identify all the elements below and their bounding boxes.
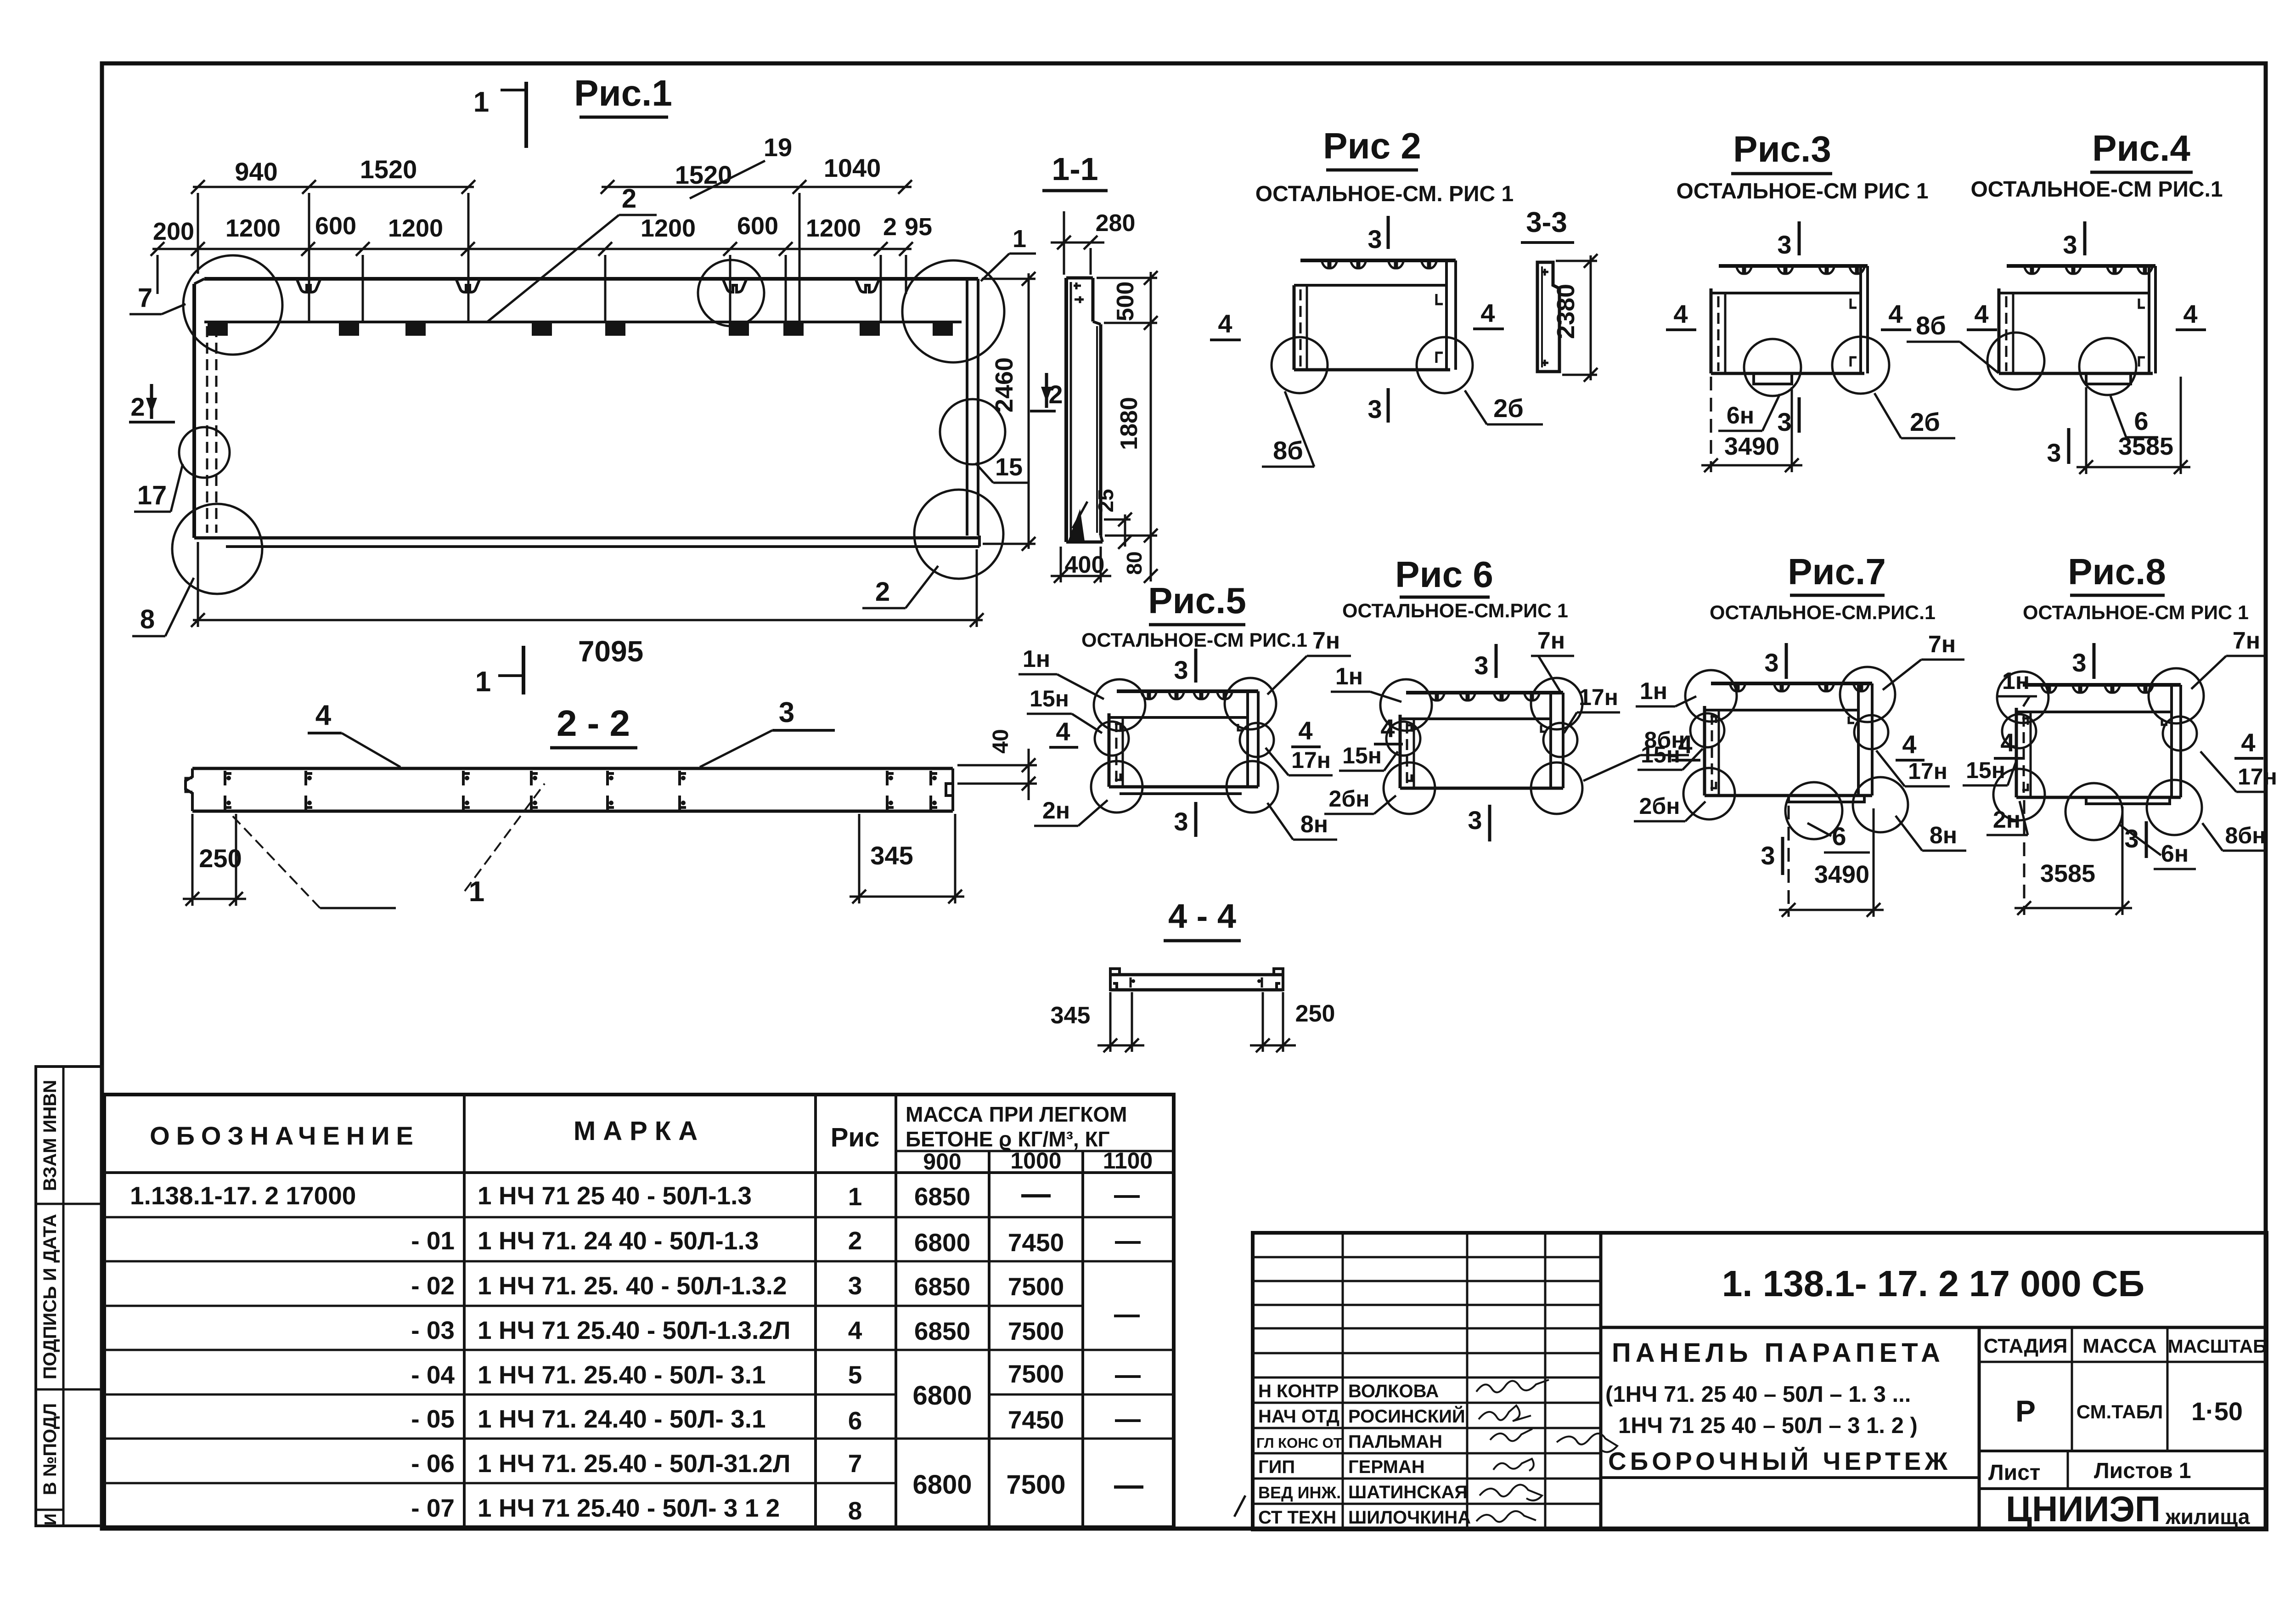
svg-text:280: 280	[1096, 210, 1136, 237]
fig4 detail circle right	[2079, 338, 2136, 395]
svg-text:600: 600	[737, 212, 778, 240]
svg-text:БЕТОНЕ ϱ КГ/М³, КГ: БЕТОНЕ ϱ КГ/М³, КГ	[906, 1127, 1110, 1151]
fig8 section mark 3 bottom	[2124, 821, 2146, 858]
svg-text:3: 3	[1367, 395, 1382, 423]
section 1-1 dim 80	[1122, 541, 1158, 583]
fig5 title	[1148, 580, 1246, 625]
fig3 mark 4 left	[1666, 299, 1696, 330]
svg-text:8: 8	[848, 1496, 862, 1525]
section 4-4 dim 345	[1051, 992, 1144, 1052]
svg-text:1200: 1200	[225, 214, 281, 242]
svg-text:Рис: Рис	[831, 1123, 880, 1152]
svg-text:940: 940	[235, 157, 277, 186]
svg-text:7500: 7500	[1008, 1360, 1064, 1388]
svg-text:СТ ТЕХН: СТ ТЕХН	[1258, 1507, 1336, 1528]
svg-text:1: 1	[475, 666, 491, 698]
title block stage/mass/scale columns	[1979, 1327, 2267, 1451]
svg-text:Рис.8: Рис.8	[2068, 551, 2166, 592]
svg-text:6800: 6800	[912, 1470, 972, 1500]
fig2 section mark 3 top	[1367, 216, 1388, 254]
fig3 detail circle bottom-left	[1744, 339, 1801, 396]
title block outer	[1253, 1233, 2267, 1530]
svg-text:1: 1	[848, 1182, 862, 1211]
section 3-3 profile	[1537, 262, 1559, 372]
table column lines	[464, 1095, 1083, 1527]
svg-text:3490: 3490	[1814, 861, 1869, 888]
fig4 title	[2090, 128, 2193, 172]
svg-text:95: 95	[905, 213, 932, 241]
fig7 section mark 3 top	[1764, 643, 1786, 679]
fig3 mark 4 right	[1881, 299, 1911, 330]
section 4-4 title	[1164, 897, 1241, 941]
svg-text:6800: 6800	[912, 1381, 972, 1411]
svg-text:ШАТИНСКАЯ: ШАТИНСКАЯ	[1348, 1482, 1468, 1502]
fig6 label 2бн	[1324, 786, 1396, 814]
fig4 label 6	[2110, 396, 2158, 437]
svg-text:17н: 17н	[1291, 747, 1331, 773]
fig7 label 7н	[1883, 631, 1964, 690]
fig3 panel	[1711, 266, 1868, 384]
fig5 section mark 3 bottom	[1174, 802, 1196, 837]
svg-text:2: 2	[622, 184, 636, 214]
svg-text:7450: 7450	[1008, 1228, 1064, 1257]
title block signatures (squiggles)	[1476, 1380, 1617, 1522]
svg-text:4: 4	[1218, 309, 1232, 338]
section 1-1 dim 280	[1051, 210, 1135, 275]
svg-text:6850: 6850	[914, 1272, 970, 1301]
svg-text:1 НЧ 71. 24 40 - 50Л-1.3: 1 НЧ 71. 24 40 - 50Л-1.3	[478, 1226, 759, 1255]
svg-text:3: 3	[779, 697, 794, 728]
fig7 dim 3490	[1779, 806, 1884, 917]
fig3 section mark 3 bottom	[1777, 397, 1799, 436]
svg-text:4: 4	[2241, 728, 2255, 757]
svg-text:1 НЧ 71. 25.40 - 50Л- 3.1: 1 НЧ 71. 25.40 - 50Л- 3.1	[478, 1360, 766, 1389]
svg-text:1: 1	[1013, 225, 1026, 253]
title block signature labels	[1256, 1381, 1471, 1528]
fig5 label 2н	[1034, 797, 1108, 826]
fig8 label 8бн	[2202, 823, 2266, 851]
fig7 teeth	[1730, 683, 1869, 691]
svg-text:Лист: Лист	[1988, 1461, 2040, 1485]
fig2 label 2б	[1465, 390, 1543, 424]
svg-text:3: 3	[1174, 807, 1188, 836]
section 2-2 title	[550, 703, 637, 748]
svg-text:2: 2	[1048, 380, 1063, 409]
fig6 teeth	[1429, 693, 1540, 700]
svg-text:Рис.4: Рис.4	[2092, 128, 2190, 169]
fig7 label 1н	[1636, 678, 1696, 706]
svg-text:1 НЧ 71 25 40 - 50Л-1.3: 1 НЧ 71 25 40 - 50Л-1.3	[478, 1181, 752, 1210]
fig6 section mark 3 top	[1474, 644, 1496, 680]
title block signature grid horizontals	[1253, 1257, 1601, 1504]
svg-text:СТАДИЯ: СТАДИЯ	[1984, 1335, 2068, 1357]
svg-text:МАРКА: МАРКА	[574, 1116, 705, 1146]
svg-text:8б: 8б	[1916, 311, 1946, 340]
svg-text:ШИЛОЧКИНА: ШИЛОЧКИНА	[1348, 1507, 1471, 1528]
svg-text:4: 4	[1974, 299, 1988, 328]
svg-text:7500: 7500	[1008, 1317, 1064, 1345]
svg-text:Н КОНТР: Н КОНТР	[1258, 1381, 1339, 1401]
svg-text:200: 200	[153, 218, 194, 245]
fig8 label 7н	[2191, 627, 2266, 689]
svg-text:4: 4	[2183, 299, 2197, 328]
svg-text:3: 3	[2124, 824, 2138, 853]
fig8 panel	[2016, 685, 2181, 804]
fig3 label 6н	[1718, 394, 1780, 431]
svg-text:жилища: жилища	[2165, 1505, 2250, 1529]
svg-text:Рис.1: Рис.1	[574, 73, 672, 113]
fig4 detail circle left	[1987, 333, 2044, 389]
svg-text:7н: 7н	[1928, 631, 1956, 658]
fig5 label 1н	[1019, 646, 1104, 699]
section 3-3 dim 2380	[1552, 254, 1598, 382]
fig1 detail circle 8	[172, 504, 262, 594]
fig6 label 7н	[1531, 627, 1574, 692]
fig1 section mark 1 (bottom)	[475, 646, 523, 698]
svg-text:4: 4	[1888, 299, 1902, 328]
fig3 teeth	[1736, 266, 1865, 274]
fig7 label 6	[1807, 822, 1870, 852]
fig7 detail circles	[1685, 670, 1737, 722]
svg-text:17: 17	[137, 480, 167, 510]
fig3 detail circle bottom-right	[1832, 337, 1889, 394]
svg-text:1040: 1040	[824, 153, 881, 182]
svg-text:500: 500	[1112, 282, 1139, 322]
fig7 label 2бн	[1634, 793, 1705, 821]
fig2 detail circle right	[1417, 337, 1473, 393]
fig2 section mark 3 bottom	[1367, 388, 1388, 423]
section 2-2 anchors	[225, 771, 937, 810]
svg-text:6850: 6850	[914, 1182, 970, 1211]
svg-text:1: 1	[469, 876, 484, 908]
fig1 label 8	[132, 578, 194, 636]
fig5 panel	[1109, 691, 1258, 794]
fig7 mark 4 right + 17н	[1896, 730, 1925, 760]
fig1 section mark 2 (left)	[129, 384, 175, 422]
svg-text:НАЧ ОТД: НАЧ ОТД	[1258, 1406, 1339, 1427]
fig1 detail circle bottom-right	[914, 490, 1003, 579]
fig2 title	[1323, 125, 1421, 170]
svg-text:4 - 4: 4 - 4	[1168, 897, 1236, 935]
svg-text:2н: 2н	[1042, 797, 1070, 824]
svg-text:1000: 1000	[1010, 1148, 1061, 1174]
svg-text:- 06: - 06	[411, 1449, 455, 1478]
svg-text:Рис 2: Рис 2	[1323, 125, 1421, 166]
svg-text:17н: 17н	[1579, 684, 1618, 710]
svg-text:3: 3	[1761, 841, 1775, 870]
svg-text:4: 4	[1298, 716, 1312, 745]
svg-text:ОСТАЛЬНОЕ-СМ.РИС 1: ОСТАЛЬНОЕ-СМ.РИС 1	[1342, 600, 1568, 622]
fig7 section mark 3 bottom	[1761, 837, 1783, 875]
fig1 anchor squares	[208, 323, 953, 336]
fig1 section mark 1 (top)	[473, 82, 526, 148]
svg-text:15н: 15н	[1966, 757, 2005, 783]
svg-text:3: 3	[1468, 806, 1482, 835]
svg-text:8б: 8б	[1273, 436, 1303, 465]
svg-text:3-3: 3-3	[1526, 207, 1567, 238]
svg-text:3: 3	[1764, 648, 1778, 677]
fig2 teeth	[1322, 260, 1437, 268]
section 1-1 dim 400	[1051, 547, 1111, 583]
svg-text:7: 7	[138, 283, 152, 313]
svg-text:3: 3	[1174, 655, 1188, 684]
section 2-2 bar	[186, 768, 953, 811]
svg-text:4: 4	[1480, 299, 1495, 327]
fig6 label 1н	[1331, 663, 1401, 702]
title block signature grid verticals	[1343, 1233, 1545, 1530]
svg-text:2 - 2: 2 - 2	[557, 703, 630, 744]
fig2 mark 4 left	[1210, 309, 1241, 340]
fig8 section mark 3 top	[2072, 643, 2094, 679]
svg-text:600: 600	[315, 212, 356, 240]
fig1 lifting loops	[297, 279, 879, 292]
svg-text:ОСТАЛЬНОЕ-СМ РИС.1: ОСТАЛЬНОЕ-СМ РИС.1	[1081, 629, 1307, 651]
svg-text:7н: 7н	[1312, 627, 1340, 654]
fig8 label 2н	[1986, 801, 2028, 835]
fig3 label 2б	[1874, 393, 1955, 438]
svg-text:3: 3	[2047, 438, 2061, 467]
fig8 title	[2068, 551, 2166, 595]
svg-text:ГЕРМАН: ГЕРМАН	[1348, 1457, 1425, 1477]
section 1-1 dim 2460	[982, 272, 1035, 551]
svg-text:6н: 6н	[2161, 841, 2189, 867]
svg-text:1 НЧ 71. 25.40 - 50Л-31.2Л: 1 НЧ 71. 25.40 - 50Л-31.2Л	[478, 1449, 790, 1478]
svg-text:ВЗАМ ИНВN: ВЗАМ ИНВN	[40, 1080, 60, 1191]
table row lines	[104, 1217, 1174, 1483]
fig2 mark 4 right	[1473, 299, 1504, 329]
svg-text:4: 4	[1678, 730, 1692, 759]
svg-text:3: 3	[1367, 225, 1382, 254]
fig5 mark 4 right + 17н	[1291, 716, 1321, 747]
svg-text:4: 4	[1056, 717, 1070, 746]
svg-text:В №ПОДЛ: В №ПОДЛ	[40, 1403, 60, 1496]
fig8 mark 4 left + 15н	[1994, 728, 2023, 758]
svg-text:ПАНЕЛЬ ПАРАПЕТА: ПАНЕЛЬ ПАРАПЕТА	[1612, 1338, 1945, 1368]
svg-text:3: 3	[1777, 407, 1791, 436]
svg-text:1: 1	[473, 86, 489, 118]
svg-text:2380: 2380	[1552, 284, 1580, 339]
svg-text:И: И	[41, 1513, 60, 1525]
svg-text:1100: 1100	[1103, 1148, 1153, 1174]
svg-text:РОСИНСКИЙ: РОСИНСКИЙ	[1348, 1405, 1465, 1427]
svg-text:- 05: - 05	[411, 1405, 455, 1433]
fig5 section mark 3 top	[1174, 649, 1196, 684]
svg-text:8бн: 8бн	[2225, 823, 2266, 848]
fig3 title	[1731, 129, 1832, 174]
svg-text:3: 3	[1474, 651, 1488, 680]
svg-text:7095: 7095	[578, 635, 643, 668]
fig1 section mark 2 (right)	[1030, 373, 1063, 411]
svg-text:1200: 1200	[388, 214, 443, 242]
svg-text:3: 3	[2072, 648, 2086, 677]
svg-text:4: 4	[1902, 730, 1916, 759]
svg-text:1200: 1200	[641, 214, 696, 242]
svg-text:8н: 8н	[1300, 811, 1328, 838]
fig6 label 17н right	[1564, 684, 1620, 733]
fig4 section mark 3 top	[2063, 221, 2085, 259]
svg-text:1н: 1н	[1023, 646, 1050, 672]
svg-text:2бн: 2бн	[1639, 793, 1680, 819]
svg-text:ГИП: ГИП	[1258, 1457, 1295, 1477]
svg-text:2б: 2б	[1910, 407, 1940, 436]
svg-text:ПАЛЬМАН: ПАЛЬМАН	[1348, 1432, 1442, 1452]
svg-text:- 07: - 07	[411, 1494, 455, 1522]
fig4 panel	[1999, 266, 2155, 384]
svg-text:7450: 7450	[1008, 1405, 1064, 1434]
svg-text:2н: 2н	[1993, 807, 2020, 833]
section 2-2 dim 250	[183, 814, 246, 906]
svg-text:1 НЧ 71. 24.40 - 50Л- 3.1: 1 НЧ 71. 24.40 - 50Л- 3.1	[478, 1405, 766, 1433]
table header lines	[104, 1171, 1174, 1174]
fig8 label 1н	[1998, 668, 2037, 706]
fig1 detail circle mid-right	[940, 399, 1005, 464]
svg-text:1·50: 1·50	[2191, 1397, 2243, 1426]
fig4 section mark 3 bottom	[2047, 428, 2069, 467]
fig1 label 2 (top) with leader	[488, 184, 657, 322]
fig5 teeth	[1141, 691, 1232, 699]
svg-text:80: 80	[1122, 551, 1146, 575]
svg-text:2460: 2460	[990, 357, 1018, 412]
svg-text:2бн: 2бн	[1329, 786, 1370, 812]
section 1-1 profile	[1066, 278, 1103, 542]
svg-text:- 04: - 04	[411, 1360, 455, 1389]
svg-text:4: 4	[1673, 299, 1688, 328]
svg-text:- 02: - 02	[411, 1271, 455, 1300]
svg-text:19: 19	[764, 133, 792, 162]
svg-text:ЦНИИЭП: ЦНИИЭП	[2006, 1489, 2161, 1529]
svg-text:- 01: - 01	[411, 1226, 455, 1255]
fig6 title	[1395, 554, 1493, 597]
fig5 label 7н	[1267, 627, 1351, 694]
fig1 label 17	[134, 464, 183, 512]
fig1 detail circle top-right	[902, 260, 1004, 362]
svg-text:6: 6	[1832, 822, 1846, 851]
svg-text:3: 3	[1777, 230, 1791, 259]
svg-text:ОСТАЛЬНОЕ-СМ. РИС 1: ОСТАЛЬНОЕ-СМ. РИС 1	[1255, 182, 1514, 206]
svg-text:7: 7	[848, 1449, 862, 1478]
svg-text:4: 4	[2000, 728, 2015, 757]
svg-text:(1НЧ 71. 25 40 – 50Л – 1. 3 ..: (1НЧ 71. 25 40 – 50Л – 1. 3 ...	[1605, 1382, 1911, 1407]
fig5 label 15н	[1027, 686, 1102, 733]
fig2 detail circle left	[1272, 337, 1328, 393]
svg-text:Рис.3: Рис.3	[1733, 129, 1831, 169]
svg-text:1-1: 1-1	[1052, 151, 1098, 187]
svg-text:40: 40	[989, 729, 1013, 753]
fig1 panel outline	[194, 279, 979, 547]
fig1 detail circle 7	[183, 255, 282, 355]
section 4-4 profile	[1110, 969, 1283, 990]
svg-text:ПОДПИСЬ И ДАТА: ПОДПИСЬ И ДАТА	[40, 1214, 60, 1379]
fig2 label 8б	[1262, 391, 1314, 467]
svg-text:400: 400	[1065, 552, 1105, 578]
svg-text:345: 345	[1051, 1002, 1091, 1029]
fig1 dimension row 200/1200/600/1200/1200/600/1200/295	[151, 242, 913, 322]
svg-text:Рис.5: Рис.5	[1148, 580, 1246, 621]
fig4 mark 4 right	[2176, 299, 2206, 330]
svg-text:1200: 1200	[806, 214, 861, 242]
fig1 title Рис.1	[574, 73, 672, 117]
fig4 label 8б	[1907, 311, 1998, 373]
fig7 title	[1788, 551, 1886, 595]
svg-text:3490: 3490	[1724, 433, 1779, 460]
section 2-2 dim 345	[850, 814, 964, 903]
svg-text:4: 4	[1380, 714, 1395, 743]
svg-text:ВОЛКОВА: ВОЛКОВА	[1348, 1381, 1439, 1401]
section 3-3 title	[1521, 207, 1574, 243]
fig4 mark 4 left	[1967, 299, 1997, 330]
section 4-4 dim 250	[1250, 992, 1335, 1052]
svg-text:Рис.7: Рис.7	[1788, 551, 1886, 592]
table outer box	[104, 1095, 1174, 1527]
svg-text:1 НЧ 71 25.40 - 50Л-1.3.2Л: 1 НЧ 71 25.40 - 50Л-1.3.2Л	[478, 1316, 790, 1344]
fig3 dim 3490	[1701, 377, 1802, 472]
svg-text:345: 345	[870, 841, 913, 870]
svg-text:8: 8	[140, 604, 155, 634]
svg-text:3: 3	[2063, 230, 2077, 259]
svg-text:250: 250	[1295, 1000, 1335, 1027]
section 1-1 dim 25	[1094, 489, 1132, 549]
svg-text:Р: Р	[2015, 1394, 2036, 1428]
fig7 mark 4 left + 15н	[1671, 730, 1700, 760]
fig4 teeth	[2024, 266, 2153, 274]
svg-text:МАССА ПРИ ЛЕГКОМ: МАССА ПРИ ЛЕГКОМ	[906, 1102, 1127, 1126]
fig5 mark 4 left	[1049, 717, 1078, 747]
section 1-1 dim 500	[1097, 271, 1158, 330]
section 2-2 label 4	[308, 700, 400, 767]
svg-text:8н: 8н	[1930, 822, 1957, 849]
svg-text:1880: 1880	[1116, 397, 1142, 450]
svg-text:ОСТАЛЬНОЕ-СМ РИС 1: ОСТАЛЬНОЕ-СМ РИС 1	[1676, 179, 1928, 203]
svg-text:7н: 7н	[2233, 627, 2260, 654]
svg-text:5: 5	[848, 1360, 862, 1389]
fig6 detail circles	[1380, 679, 1432, 731]
svg-text:6850: 6850	[914, 1317, 970, 1345]
svg-text:900: 900	[923, 1149, 961, 1174]
title block main title cell	[1978, 1327, 1981, 1530]
svg-text:2: 2	[848, 1226, 862, 1255]
svg-text:3585: 3585	[2118, 433, 2173, 460]
sidebar column box	[36, 1067, 102, 1526]
svg-text:ОБОЗНАЧЕНИЕ: ОБОЗНАЧЕНИЕ	[150, 1121, 420, 1150]
fig3 section mark 3 top	[1777, 221, 1799, 259]
fig2 panel	[1294, 260, 1456, 370]
fig5 label 8н	[1267, 803, 1337, 840]
fig1 dimension 7095	[191, 542, 984, 627]
svg-text:1 НЧ 71 25.40 - 50Л- 3 1 2: 1 НЧ 71 25.40 - 50Л- 3 1 2	[478, 1494, 780, 1522]
svg-text:4: 4	[848, 1316, 862, 1344]
title block slash mark	[1234, 1496, 1245, 1517]
svg-text:6800: 6800	[914, 1228, 970, 1257]
svg-text:6: 6	[2134, 406, 2148, 435]
svg-text:15: 15	[995, 453, 1023, 481]
fig6 section mark 3 bottom	[1468, 805, 1490, 841]
title block doc number cell	[1601, 1326, 2267, 1329]
fig5 dim 40 (section 2-2 end)	[957, 729, 1037, 800]
fig1 detail circle 17	[179, 427, 230, 478]
svg-text:4: 4	[315, 700, 332, 731]
svg-text:7500: 7500	[1008, 1272, 1064, 1301]
section 2-2 label 3	[700, 697, 835, 767]
svg-text:СБОРОЧНЫЙ ЧЕРТЕЖ: СБОРОЧНЫЙ ЧЕРТЕЖ	[1608, 1446, 1951, 1475]
section 1-1 dim 1880	[1105, 323, 1158, 542]
svg-text:ВЕД ИНЖ.: ВЕД ИНЖ.	[1258, 1483, 1341, 1502]
svg-text:6н: 6н	[1727, 402, 1754, 429]
svg-text:1НЧ 71 25 40 – 50Л – 3 1. 2 ): 1НЧ 71 25 40 – 50Л – 3 1. 2 )	[1618, 1413, 1918, 1438]
svg-text:17н: 17н	[2238, 764, 2277, 790]
fig4 dim 3585	[2077, 377, 2190, 474]
fig1 label 1 (right top corner)	[981, 225, 1036, 281]
svg-text:ГЛ КОНС ОТ: ГЛ КОНС ОТ	[1256, 1435, 1342, 1451]
